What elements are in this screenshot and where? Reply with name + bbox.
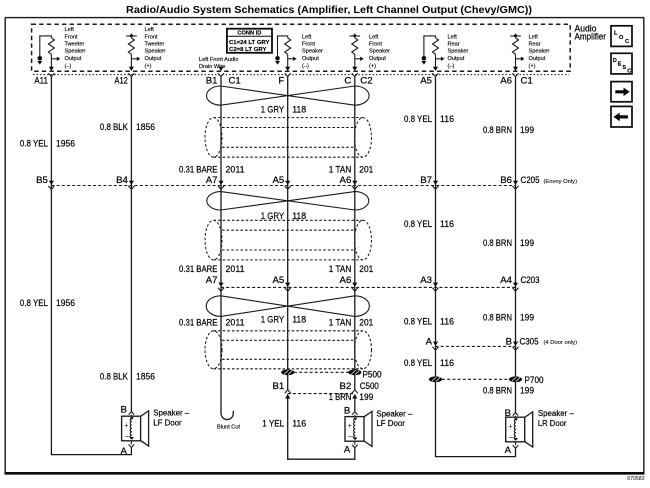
shield cylinder 3 (dashed) [205, 331, 372, 369]
junction A11 [48, 67, 54, 77]
svg-text:C205: C205 [521, 175, 540, 186]
speaker 2 cone [364, 411, 372, 446]
connector row C500 (dashed) [288, 393, 355, 395]
svg-text:B7: B7 [420, 175, 432, 186]
driver 3 case ground dot [275, 56, 280, 61]
svg-text:Front: Front [65, 34, 79, 40]
svg-text:A: A [120, 446, 127, 457]
button left arrow [611, 106, 632, 127]
junction A4/C203 [513, 283, 519, 292]
svg-text:1 GRY: 1 GRY [261, 211, 285, 222]
driver 4 output arrow [355, 58, 361, 60]
speaker 1 terminal B chevron [129, 412, 135, 415]
label 0.8 BRN 199 (1) [483, 125, 534, 136]
svg-text:118: 118 [292, 211, 306, 222]
svg-text:Front: Front [369, 41, 383, 47]
svg-text:1 YEL: 1 YEL [262, 419, 285, 430]
svg-text:A12: A12 [114, 76, 128, 87]
svg-text:Output: Output [369, 56, 386, 62]
speaker 2 box [345, 417, 364, 442]
label 1 TAN 201 (2) [329, 264, 374, 275]
svg-text:Left: Left [448, 34, 458, 40]
svg-text:Speaker: Speaker [369, 49, 390, 55]
junction A5 row2 [285, 181, 291, 190]
svg-text:1 GRY: 1 GRY [261, 104, 285, 115]
driver 4 label [369, 34, 390, 69]
shield cylinder 2 (dashed) [205, 220, 372, 260]
svg-text:A: A [344, 445, 351, 456]
svg-text:C: C [344, 76, 351, 87]
driver 4: Left Front Speaker Output (+) coil [350, 34, 361, 68]
wire 4: 1 GRY 118 (F to splice P500, then 1 YEL 116 to LF Door speaker A) [287, 77, 289, 391]
speaker 1 box [122, 416, 141, 441]
svg-text:118: 118 [292, 104, 306, 115]
svg-text:Left: Left [369, 34, 379, 40]
svg-text:P700: P700 [525, 375, 544, 386]
svg-text:199: 199 [520, 125, 534, 136]
svg-text:201: 201 [359, 264, 373, 275]
svg-text:C: C [627, 69, 631, 75]
junction A6 row2 [352, 181, 358, 190]
svg-text:LF Door: LF Door [376, 419, 405, 428]
speaker 3 terminal A chevron [515, 442, 517, 445]
svg-text:201: 201 [359, 164, 373, 175]
svg-text:C305: C305 [520, 336, 539, 347]
svg-text:199: 199 [520, 386, 534, 397]
speaker 2 voice coil [354, 419, 356, 439]
svg-text:0.8 BLK: 0.8 BLK [100, 122, 128, 133]
svg-text:–: – [509, 433, 514, 442]
svg-text:118: 118 [292, 315, 306, 326]
svg-text:B1: B1 [272, 381, 284, 392]
svg-text:Speaker –: Speaker – [376, 409, 413, 418]
svg-text:116: 116 [440, 358, 454, 369]
svg-text:B2: B2 [340, 381, 352, 392]
junction F [285, 67, 291, 77]
svg-text:Left: Left [145, 27, 155, 33]
svg-text:A: A [426, 336, 433, 347]
label 1 GRY 118 (1) [261, 104, 307, 115]
svg-text:A6: A6 [500, 76, 512, 87]
svg-text:0.31 BARE: 0.31 BARE [179, 164, 218, 175]
svg-text:Speaker: Speaker [448, 49, 469, 55]
svg-text:D: D [613, 58, 617, 64]
svg-text:C2=8 LT GRY: C2=8 LT GRY [229, 47, 267, 53]
label 0.8 YEL 1956 (upper) [20, 138, 75, 149]
label 0.31 BARE 2011 (1) [179, 164, 245, 175]
driver 3 label [302, 34, 323, 69]
wire 6: 0.8 YEL 116 (A5 to LR Door speaker A) [436, 77, 516, 457]
driver 5: Left Rear Speaker Output (-) coil [424, 36, 439, 67]
CONN ID box [227, 29, 272, 53]
svg-text:0.8 YEL: 0.8 YEL [404, 219, 433, 230]
svg-text:Left: Left [65, 27, 75, 33]
junction A6 row3 [352, 283, 358, 292]
label 0.8 YEL 116 (1) [404, 114, 454, 125]
speaker 2 terminal B chevron [352, 412, 358, 415]
svg-text:(+): (+) [369, 63, 376, 69]
svg-text:Speaker –: Speaker – [153, 409, 190, 418]
svg-text:116: 116 [440, 114, 454, 125]
label 0.8 BRN 199 (4) [483, 386, 534, 397]
svg-text:A7: A7 [206, 175, 218, 186]
splice P500 on wire 5 [348, 369, 361, 375]
svg-text:+: + [124, 423, 128, 430]
button DESC [611, 53, 632, 74]
driver 2 output arrow [131, 58, 137, 60]
svg-text:0.8 YEL: 0.8 YEL [404, 317, 433, 328]
label 1 YEL 116 [262, 419, 306, 430]
svg-text:B: B [120, 405, 126, 416]
svg-text:Left Front Audio: Left Front Audio [199, 57, 239, 63]
junction A5 [433, 67, 439, 77]
svg-text:CONN ID: CONN ID [237, 31, 261, 37]
label 0.31 BARE 2011 (2) [179, 264, 245, 275]
svg-text:B1: B1 [206, 76, 218, 87]
driver 2: Left Front Tweeter Speaker Output (+) coil [126, 34, 137, 68]
driver 5 label [448, 34, 469, 69]
connector row 4 C305 (dashed) [436, 345, 516, 347]
svg-text:C: C [625, 39, 629, 45]
svg-text:C1: C1 [521, 76, 533, 87]
svg-text:0.8 BRN: 0.8 BRN [483, 238, 512, 249]
svg-text:(+): (+) [145, 63, 152, 69]
svg-text:116: 116 [292, 419, 306, 430]
svg-text:199: 199 [520, 238, 534, 249]
svg-text:0.8 YEL: 0.8 YEL [20, 298, 49, 309]
svg-text:Left: Left [302, 34, 312, 40]
svg-text:1956: 1956 [56, 138, 75, 149]
junction A (C305) [433, 342, 439, 351]
driver 2 label [145, 27, 166, 69]
junction B (C305) [513, 342, 519, 351]
svg-text:0.8 BRN: 0.8 BRN [483, 386, 512, 397]
wire 7: 0.8 BRN 199 (A6/C1 to LR Door speaker B) [515, 77, 517, 413]
svg-text:(–): (–) [302, 63, 309, 69]
junction A5 row3 [285, 283, 291, 292]
speaker 3 terminal B chevron [513, 413, 519, 416]
svg-text:Blunt Cut: Blunt Cut [217, 425, 240, 431]
svg-text:(+): (+) [529, 63, 536, 69]
label 1 TAN 201 (1) [329, 164, 374, 175]
splice P500 link (dashed) [294, 371, 349, 373]
svg-text:Output: Output [448, 56, 465, 62]
svg-text:C1=24 LT GRY: C1=24 LT GRY [229, 40, 270, 46]
audio amplifier dashed box [32, 24, 571, 71]
label 0.8 YEL 1956 (lower) [20, 298, 75, 309]
junction B1/C1 [218, 67, 224, 77]
splice P700 on wire 7 [509, 376, 522, 382]
svg-text:Left: Left [529, 34, 539, 40]
driver 1 case ground dot [38, 56, 43, 61]
svg-text:0.31 BARE: 0.31 BARE [179, 264, 218, 275]
speaker 3 box [506, 417, 525, 442]
svg-text:C500: C500 [360, 381, 379, 392]
button right arrow [611, 82, 632, 102]
svg-text:A5: A5 [272, 175, 284, 186]
svg-text:Rear: Rear [529, 41, 541, 47]
svg-text:S: S [622, 65, 626, 71]
svg-text:Tweeter: Tweeter [145, 41, 165, 47]
svg-text:116: 116 [440, 219, 454, 230]
svg-text:A6: A6 [340, 175, 352, 186]
twisted pair symbol 2 (wires 3-5) [207, 192, 369, 210]
svg-text:Speaker: Speaker [529, 49, 550, 55]
label 1 TAN 201 (3) [329, 318, 374, 329]
svg-text:B5: B5 [36, 175, 48, 186]
svg-text:C1: C1 [229, 76, 241, 87]
svg-text:0.8 BRN: 0.8 BRN [483, 125, 512, 136]
svg-text:A: A [505, 445, 512, 456]
label 0.8 YEL 116 (4) [404, 358, 454, 369]
wire 5: 1 TAN 201 (C/C2 to splice P500, then 1 BRN 199 to LF Door speaker B) [354, 77, 356, 391]
svg-text:O: O [619, 35, 624, 41]
label 0.31 BARE 2011 (3) [179, 318, 245, 329]
junction A7 row2 [218, 181, 224, 190]
junction C/C2 [352, 67, 358, 77]
svg-text:1 GRY: 1 GRY [261, 315, 285, 326]
svg-text:(–): (–) [65, 63, 72, 69]
junction A7 row3 [218, 283, 224, 292]
driver 1 label [65, 27, 86, 69]
svg-text:E: E [618, 61, 622, 67]
svg-text:A5: A5 [420, 76, 432, 87]
driver 5 case ground dot [422, 56, 427, 61]
label 0.8 BLK 1856 (lower) [100, 372, 155, 383]
outer frame thick bottom border [5, 472, 645, 475]
svg-text:Rear: Rear [448, 41, 460, 47]
driver 3 output arrow [288, 58, 294, 60]
svg-text:B: B [344, 406, 350, 417]
svg-text:2011: 2011 [226, 318, 245, 329]
label 1 GRY 118 (2) [261, 211, 307, 222]
svg-text:+: + [348, 423, 352, 430]
wire 1: 0.8 YEL 1956 (A11 to LF Door speaker A) [51, 77, 131, 455]
driver 1: Left Front Tweeter Speaker Output (-) coil [40, 36, 55, 67]
svg-text:201: 201 [359, 318, 373, 329]
svg-text:A3: A3 [420, 275, 432, 286]
junction B6/C205 [513, 181, 519, 190]
svg-text:+: + [508, 424, 512, 431]
wire 3: 0.31 BARE 2011 drain wire with blunt cut hook [221, 77, 233, 420]
svg-text:1856: 1856 [136, 372, 155, 383]
button LOC [611, 26, 632, 47]
speaker 1 terminal A chevron [130, 441, 132, 445]
svg-text:Output: Output [145, 56, 162, 62]
svg-text:0.8 YEL: 0.8 YEL [20, 138, 49, 149]
svg-text:1 TAN: 1 TAN [329, 164, 352, 175]
svg-text:P500: P500 [363, 369, 382, 380]
svg-text:–: – [348, 432, 353, 441]
svg-text:Front: Front [302, 41, 316, 47]
svg-text:B6: B6 [500, 175, 512, 186]
svg-text:B4: B4 [116, 175, 128, 186]
junction A12 [128, 67, 134, 77]
junction B1 (C500) [285, 390, 291, 399]
label 0.8 YEL 116 (2) [404, 219, 454, 230]
shield cylinder 1 (dashed) [205, 118, 372, 158]
svg-text:199: 199 [359, 392, 373, 403]
svg-text:(4 Door only): (4 Door only) [544, 340, 578, 346]
svg-text:1956: 1956 [56, 298, 75, 309]
svg-text:116: 116 [440, 317, 454, 328]
svg-text:L: L [614, 31, 618, 37]
label: Left Front Audio Drain Wire [199, 57, 239, 70]
junction B2 (C500) [352, 390, 358, 399]
svg-text:670583: 670583 [627, 476, 644, 482]
driver 3: Left Front Speaker Output (-) coil [278, 36, 291, 67]
junction A3 [433, 283, 439, 292]
svg-text:0.8 BRN: 0.8 BRN [483, 313, 512, 324]
svg-text:F: F [278, 76, 284, 87]
label 0.8 BLK 1856 (upper) [100, 122, 155, 133]
label 0.8 BRN 199 (2) [483, 238, 534, 249]
speaker 2 terminal A chevron [354, 441, 356, 445]
svg-text:0.8 YEL: 0.8 YEL [404, 114, 433, 125]
splice P700 link (dashed) [442, 378, 509, 380]
svg-text:LF Door: LF Door [153, 418, 182, 427]
driver 6 output arrow [516, 58, 522, 60]
junction B7 [433, 181, 439, 190]
svg-text:Output: Output [529, 56, 546, 62]
svg-text:(–): (–) [448, 63, 455, 69]
svg-text:1 BRN: 1 BRN [329, 392, 352, 403]
svg-text:Output: Output [302, 56, 319, 62]
driver 1 output arrow [51, 58, 57, 60]
svg-text:0.31 BARE: 0.31 BARE [179, 318, 218, 329]
svg-text:C203: C203 [521, 275, 540, 286]
svg-text:A4: A4 [500, 275, 512, 286]
svg-text:Speaker: Speaker [145, 49, 166, 55]
wire 2: 0.8 BLK 1856 (A12 to LF Door speaker B) [130, 77, 132, 412]
svg-text:199: 199 [520, 313, 534, 324]
label 1 BRN 199 [329, 392, 374, 403]
svg-text:LR Door: LR Door [538, 419, 567, 428]
svg-text:A11: A11 [34, 76, 48, 87]
twisted pair symbol 3 (wires 3-5) [206, 296, 369, 317]
svg-text:Radio/Audio System Schematics: Radio/Audio System Schematics (Amplifier… [126, 5, 532, 16]
svg-text:Tweeter: Tweeter [65, 41, 85, 47]
label 0.8 BRN 199 (3) [483, 313, 534, 324]
label 1 GRY 118 (3) [261, 315, 307, 326]
svg-text:Speaker: Speaker [302, 49, 323, 55]
svg-text:0.8 YEL: 0.8 YEL [404, 358, 433, 369]
svg-text:A5: A5 [272, 275, 284, 286]
svg-text:Speaker –: Speaker – [538, 409, 575, 418]
svg-text:A6: A6 [340, 275, 352, 286]
splice P700 on wire 6 [429, 376, 442, 382]
junction B5 [48, 181, 54, 190]
svg-text:1 TAN: 1 TAN [329, 318, 352, 329]
svg-text:2011: 2011 [226, 264, 245, 275]
splice P500 on wire 4 [281, 369, 294, 375]
speaker 3 voice coil [514, 419, 516, 439]
label 0.8 YEL 116 (3) [404, 317, 454, 328]
svg-text:Front: Front [145, 34, 159, 40]
svg-text:A7: A7 [206, 275, 218, 286]
junction A6/C1 [513, 67, 519, 77]
svg-text:–: – [125, 432, 130, 441]
svg-text:Speaker: Speaker [65, 49, 86, 55]
svg-text:(Envoy Only): (Envoy Only) [544, 179, 578, 185]
svg-text:C2: C2 [360, 76, 372, 87]
speaker 1 voice coil [130, 418, 132, 438]
speaker 3 cone [525, 412, 533, 447]
speaker 1 cone [141, 411, 149, 446]
driver 6: Left Rear Speaker Output (+) coil [510, 34, 521, 68]
svg-text:0.8 BLK: 0.8 BLK [100, 372, 128, 383]
svg-text:1 TAN: 1 TAN [329, 264, 352, 275]
svg-text:Output: Output [65, 56, 82, 62]
svg-text:1856: 1856 [136, 122, 155, 133]
connector row 3 (dashed) [221, 286, 516, 288]
junction B4 [128, 181, 134, 190]
driver 5 output arrow [436, 58, 442, 60]
driver 6 label [529, 34, 550, 69]
svg-text:Amplifier: Amplifier [575, 32, 607, 43]
svg-text:B: B [506, 336, 512, 347]
svg-text:2011: 2011 [226, 164, 245, 175]
